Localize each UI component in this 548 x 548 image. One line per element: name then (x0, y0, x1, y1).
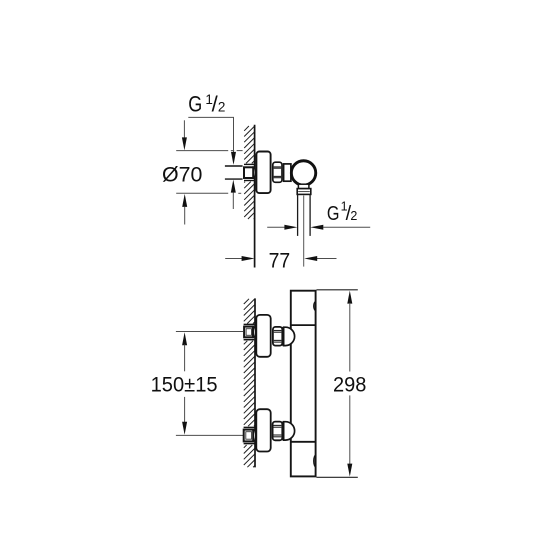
lower wall union collars (front view) (244, 426, 255, 428)
connector cylinder (top view) (284, 164, 291, 181)
wall line (top view) (254, 125, 256, 268)
dimension Ø70 extension line top (176, 150, 242, 152)
svg-text:G: G (327, 203, 340, 225)
outlet nut (297, 189, 311, 195)
upper union hex nut (273, 327, 282, 346)
pipe centre line (303, 196, 305, 267)
svg-text:77: 77 (269, 249, 291, 272)
svg-text:2: 2 (350, 209, 357, 223)
bottom knob axis arc (314, 455, 317, 467)
dimension Ø70 extension line bottom (176, 192, 241, 194)
dimension 298 extension line bottom (317, 476, 358, 478)
supply pipe in wall (top view) (225, 165, 243, 167)
arrow G 1/2 lower (points up at pipe) (232, 193, 234, 209)
upper union dome (284, 327, 295, 345)
wall hatching (front view) (244, 299, 255, 467)
dimension 150±15 extension line lower (176, 434, 243, 436)
escutcheon (top view) (256, 152, 270, 194)
lower union hex nut (273, 422, 283, 441)
upper wall union collars (front view) (244, 323, 255, 325)
dimension 150±15 extension line upper (176, 331, 243, 333)
wall hatching (top view) (244, 126, 254, 219)
svg-text:150±15: 150±15 (151, 373, 218, 396)
lower wall union square (244, 430, 254, 442)
dimension G 1/2 outlet right segment (323, 226, 370, 228)
lower wall union round end (251, 430, 256, 442)
dimension 150±15 arrows (182, 332, 187, 345)
wall union nipple square (top view) (244, 167, 253, 178)
top knob axis arc (314, 301, 316, 310)
hex nut (top view) (273, 162, 282, 182)
svg-text:2: 2 (218, 99, 226, 114)
upper escutcheon (front view) (256, 315, 270, 357)
shower outlet pipe (297, 194, 299, 236)
lower union dome (284, 422, 295, 440)
thermostat bar body (291, 291, 316, 477)
dimension 298 extension line top (317, 289, 358, 291)
dimension G 1/2 outlet left segment (267, 226, 285, 228)
dimension 77 right segment (317, 258, 337, 260)
wall line (front view) (254, 298, 256, 467)
lower escutcheon (front view) (256, 409, 270, 451)
dimension 298 arrows and line (347, 291, 352, 304)
dimension 77 left segment (225, 258, 242, 260)
svg-text:Ø70: Ø70 (162, 164, 202, 187)
bar joint line upper (291, 324, 317, 326)
upper wall union square (244, 327, 253, 338)
upper union joint (282, 327, 284, 346)
dimension Ø70 arrow bottom (184, 207, 186, 225)
svg-text:G: G (188, 91, 202, 116)
upper wall union round end (251, 326, 256, 337)
wall union nipple collars (top view) (244, 163, 254, 165)
leader G 1/2 (top) (188, 117, 233, 152)
outlet neck ring (298, 184, 309, 188)
bar joint line lower (291, 441, 317, 443)
wall union nipple round end (251, 167, 256, 178)
valve body circle (top view) (291, 161, 315, 185)
lower union joint (282, 422, 284, 441)
svg-text:298: 298 (333, 373, 366, 396)
dimension Ø70 arrow top (183, 120, 185, 138)
